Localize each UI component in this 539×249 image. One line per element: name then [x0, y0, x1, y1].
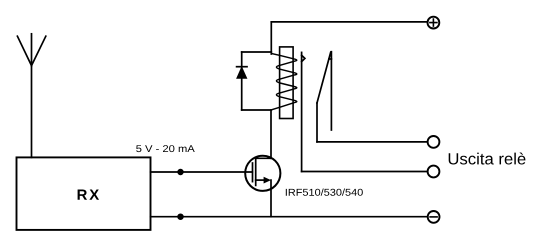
- diode D1 vertical leads: [241, 52, 243, 110]
- junction dot on top wire: [178, 170, 183, 175]
- diode D1 anode triangle: [237, 68, 247, 79]
- diode D1 cathode bar: [237, 66, 247, 68]
- relay S1 fixed contact flag: [302, 55, 305, 62]
- wire blade to upper output terminal: [317, 141, 428, 143]
- diode D1 branch bottom wire: [242, 109, 272, 111]
- MOSFET Q1 body circle: [245, 156, 280, 191]
- relay K1 coil core rectangle: [280, 47, 294, 119]
- wire node to top rail: [270, 22, 272, 54]
- MOSFET source arrowhead: [264, 177, 271, 184]
- relay S1 blade slant: [317, 52, 331, 103]
- relay K1 coil winding: [271, 53, 297, 110]
- label Uscita rele: [449, 152, 526, 164]
- wire fixed contact to lower output terminal: [302, 171, 428, 173]
- terminal relay lower: [428, 166, 440, 178]
- MOSFET gate bar: [252, 163, 254, 182]
- wire blade pivot down: [316, 103, 318, 142]
- terminal minus circle: [428, 211, 440, 223]
- terminal plus circle: [428, 17, 440, 29]
- wire top rail to plus terminal: [271, 21, 427, 23]
- wire bottom rail: [151, 216, 428, 218]
- RX receiver box: [17, 157, 151, 230]
- relay S1 blade tip vertical: [330, 52, 332, 130]
- plus sign: [430, 19, 437, 26]
- label IRF510/530/540: [286, 189, 363, 196]
- MOSFET channel bar: [255, 158, 257, 186]
- MOSFET drain link: [256, 157, 271, 159]
- label RX: [78, 190, 99, 200]
- MOSFET source link with arrow: [256, 179, 265, 181]
- wire RX top output to gate: [151, 171, 253, 173]
- junction dot on bottom rail: [178, 214, 183, 219]
- antenna ANT1: [17, 34, 45, 158]
- relay S1 blade tip crossbar: [329, 58, 332, 60]
- diode D1 branch top wire: [242, 51, 272, 53]
- relay S1 fixed contact line: [301, 52, 303, 171]
- wire source to bottom rail: [270, 180, 272, 217]
- label 5 V - 20 mA: [136, 145, 195, 152]
- wire drain up to node: [270, 110, 272, 158]
- minus sign: [430, 216, 437, 218]
- terminal relay upper: [428, 136, 440, 148]
